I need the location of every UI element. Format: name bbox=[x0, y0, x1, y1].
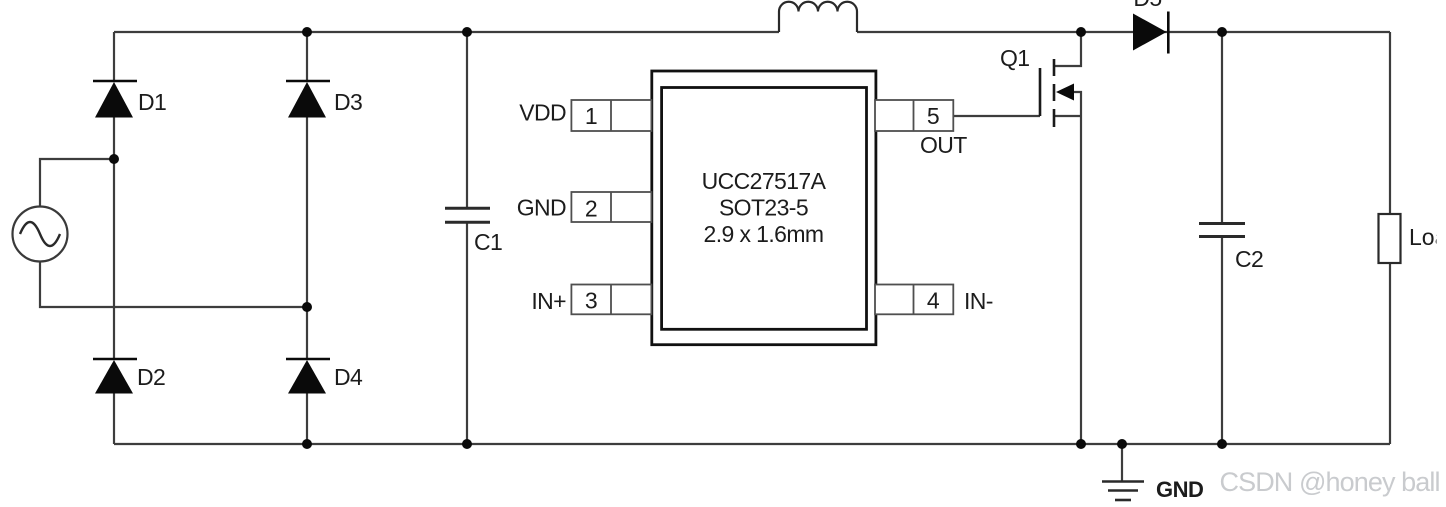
svg-text:IN-: IN- bbox=[964, 288, 993, 314]
svg-text:C1: C1 bbox=[474, 229, 502, 255]
svg-text:VDD: VDD bbox=[519, 100, 566, 126]
svg-text:C2: C2 bbox=[1235, 246, 1263, 272]
svg-text:D1: D1 bbox=[138, 89, 166, 115]
svg-text:SOT23-5: SOT23-5 bbox=[719, 195, 808, 221]
svg-text:CSDN @honey ball: CSDN @honey ball bbox=[1220, 467, 1440, 497]
svg-text:D3: D3 bbox=[334, 89, 362, 115]
svg-text:GND: GND bbox=[517, 195, 566, 221]
svg-text:3: 3 bbox=[585, 287, 597, 313]
svg-text:D4: D4 bbox=[334, 364, 363, 390]
svg-text:D2: D2 bbox=[137, 364, 165, 390]
svg-text:GND: GND bbox=[1156, 477, 1203, 502]
svg-text:UCC27517A: UCC27517A bbox=[702, 168, 827, 194]
svg-text:Q1: Q1 bbox=[1000, 45, 1029, 71]
svg-text:OUT: OUT bbox=[920, 132, 967, 158]
svg-text:IN+: IN+ bbox=[531, 288, 566, 314]
svg-text:2: 2 bbox=[585, 196, 597, 222]
svg-text:4: 4 bbox=[927, 287, 940, 313]
svg-text:2.9 x 1.6mm: 2.9 x 1.6mm bbox=[704, 221, 824, 247]
svg-text:5: 5 bbox=[927, 103, 939, 129]
svg-text:1: 1 bbox=[585, 103, 597, 129]
svg-text:D5: D5 bbox=[1133, 0, 1161, 11]
